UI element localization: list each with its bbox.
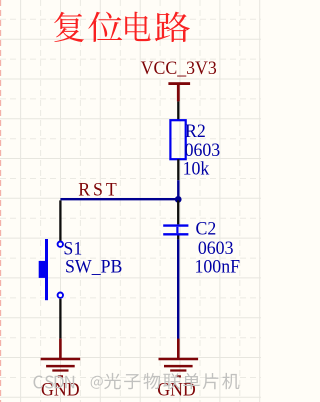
resistor R2 pin top (177, 101, 179, 120)
capacitor C2 pin top (177, 200, 179, 224)
ground bar4 (58, 375, 63, 377)
title char 路 (155, 12, 190, 42)
svg-text:10k: 10k (183, 158, 210, 179)
wire RST horizontal (60, 198, 178, 200)
svg-text:VCC_3V3: VCC_3V3 (141, 57, 217, 78)
ground bar3 (52, 369, 68, 371)
junction node RST (175, 196, 182, 203)
ground bar3 (170, 369, 186, 371)
left edge pink dashed line (0, 0, 2, 402)
resistor R2 body (170, 120, 185, 159)
ground stem (177, 339, 180, 359)
svg-text:0603: 0603 (185, 139, 221, 160)
svg-text:R2: R2 (185, 120, 206, 141)
title char 位 (88, 12, 122, 42)
capacitor C2 plate bottom (163, 233, 188, 235)
switch S1 button cap (39, 261, 45, 278)
title char 复 (54, 12, 84, 42)
resistor R2 pin bottom (177, 159, 179, 180)
ground bar4 (176, 375, 181, 377)
capacitor C2 plate top (163, 224, 188, 226)
ground bar1 (159, 358, 199, 361)
svg-text:SW_PB: SW_PB (65, 256, 122, 277)
watermark CSDN @光子物联单片机 (34, 373, 240, 390)
svg-text:RST: RST (78, 179, 119, 200)
ground bar1 (41, 358, 81, 361)
capacitor C2 mid segment (176, 227, 178, 233)
ground stem (59, 339, 62, 359)
switch S1 pin bottom (59, 299, 61, 339)
ground bar2 (46, 365, 75, 368)
power stem (177, 85, 180, 101)
svg-text:100nF: 100nF (195, 256, 241, 277)
wire C2 to GND (177, 239, 179, 339)
switch S1 terminal circle bottom (58, 293, 63, 298)
capacitor C2 pin bottom (177, 236, 179, 240)
switch S1 terminal circle top (58, 242, 63, 247)
wire R2 to junction (177, 180, 179, 198)
switch S1 pin top (59, 200, 61, 241)
ground bar2 (164, 365, 193, 368)
switch S1 bar (45, 239, 48, 300)
title char 电 (125, 12, 150, 41)
svg-text:C2: C2 (195, 218, 216, 239)
power bar VCC (168, 82, 190, 85)
